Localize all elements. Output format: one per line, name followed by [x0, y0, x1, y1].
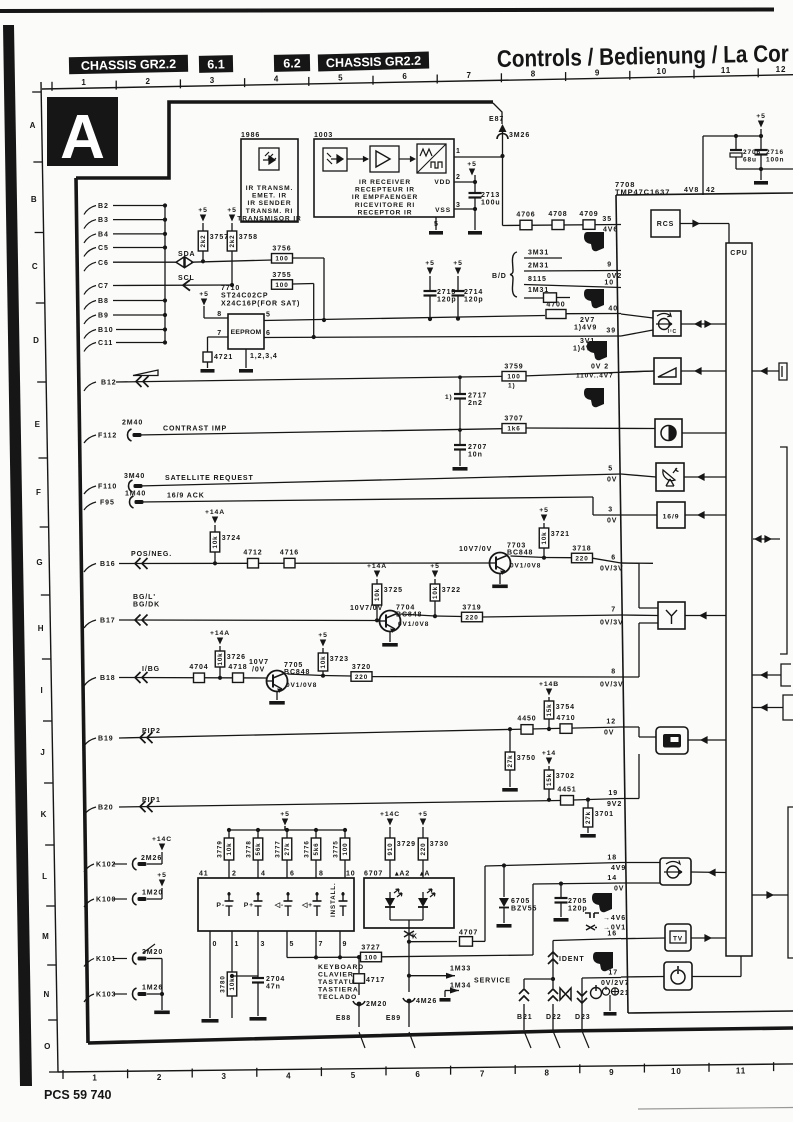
- svg-text:1: 1: [92, 1074, 97, 1083]
- svg-text:120p: 120p: [464, 297, 484, 304]
- svg-text:C5: C5: [98, 245, 109, 252]
- svg-text:+14B: +14B: [539, 681, 559, 688]
- svg-text:10: 10: [671, 1067, 682, 1076]
- svg-text:3722: 3722: [442, 587, 461, 594]
- svg-text:+14A: +14A: [205, 509, 225, 516]
- svg-text:4716: 4716: [280, 549, 299, 556]
- svg-text:3779: 3779: [217, 840, 224, 857]
- svg-text:16/9 ACK: 16/9 ACK: [167, 493, 205, 500]
- svg-text:→4V6: →4V6: [603, 915, 626, 922]
- svg-text:100u: 100u: [481, 200, 501, 207]
- svg-text:8: 8: [319, 871, 324, 878]
- svg-text:2M26: 2M26: [141, 855, 162, 862]
- svg-text:K: K: [412, 934, 418, 941]
- svg-text:+14A: +14A: [367, 563, 387, 570]
- svg-text:SATELLITE REQUEST: SATELLITE REQUEST: [165, 475, 254, 482]
- svg-text:B/D: B/D: [492, 273, 507, 280]
- svg-text:6.2: 6.2: [283, 56, 301, 70]
- svg-text:7: 7: [480, 1069, 485, 1078]
- svg-text:110V..4V7: 110V..4V7: [576, 373, 614, 380]
- svg-text:4: 4: [261, 871, 266, 878]
- svg-text:1: 1: [81, 78, 86, 87]
- svg-text:12: 12: [606, 719, 616, 726]
- svg-text:2705: 2705: [568, 898, 587, 905]
- svg-text:4710: 4710: [556, 715, 575, 722]
- svg-text:3726: 3726: [227, 654, 246, 661]
- svg-text:2: 2: [232, 871, 237, 878]
- svg-text:3702: 3702: [556, 773, 575, 780]
- svg-text:B9: B9: [98, 313, 109, 320]
- svg-text:3759: 3759: [504, 363, 523, 370]
- svg-text:IR SENDER: IR SENDER: [247, 200, 291, 207]
- svg-text:2k2: 2k2: [200, 234, 207, 247]
- svg-text:P+: P+: [244, 902, 254, 909]
- svg-text:0V/3V: 0V/3V: [600, 682, 624, 689]
- svg-text:3750: 3750: [517, 755, 536, 762]
- svg-text:7703: 7703: [507, 543, 526, 550]
- svg-text:4M26: 4M26: [416, 998, 437, 1005]
- svg-text:2: 2: [456, 174, 461, 181]
- svg-text:16/9: 16/9: [663, 514, 680, 521]
- svg-text:1M40: 1M40: [125, 491, 146, 498]
- svg-text:7: 7: [611, 607, 616, 614]
- svg-text:B4: B4: [98, 232, 109, 239]
- svg-text:3776: 3776: [304, 840, 311, 857]
- svg-text:INSTALL.: INSTALL.: [330, 882, 337, 917]
- svg-text:B20: B20: [98, 805, 114, 812]
- svg-text:+14C: +14C: [380, 811, 400, 818]
- svg-text:0V: 0V: [614, 886, 624, 893]
- svg-text:D: D: [33, 336, 40, 345]
- svg-text:39: 39: [606, 328, 616, 335]
- svg-text:10: 10: [656, 67, 667, 76]
- svg-text:10n: 10n: [468, 452, 483, 459]
- svg-text:16: 16: [607, 931, 617, 938]
- svg-text:+5: +5: [157, 872, 167, 879]
- svg-text:5k6: 5k6: [313, 842, 320, 855]
- svg-text:6: 6: [290, 871, 295, 878]
- svg-text:E89: E89: [386, 1015, 401, 1022]
- svg-text:+5: +5: [539, 507, 549, 514]
- svg-text:2717: 2717: [468, 393, 487, 400]
- svg-text:4: 4: [274, 75, 279, 84]
- svg-text:35: 35: [602, 216, 612, 223]
- svg-text:1: 1: [456, 148, 461, 155]
- svg-text:8: 8: [217, 311, 222, 318]
- svg-text:3M20: 3M20: [142, 949, 163, 956]
- svg-text:6: 6: [402, 72, 407, 81]
- svg-text:POS/NEG.: POS/NEG.: [131, 551, 172, 558]
- svg-text:4708: 4708: [548, 211, 567, 218]
- svg-text:10k: 10k: [212, 535, 219, 548]
- svg-text:K: K: [41, 810, 48, 819]
- svg-text:1)4V9: 1)4V9: [574, 325, 597, 332]
- svg-text:▴A2: ▴A2: [394, 871, 410, 878]
- svg-text:7: 7: [217, 330, 222, 337]
- svg-text:6707: 6707: [364, 871, 383, 878]
- svg-text:VDD: VDD: [434, 179, 451, 186]
- svg-text:8: 8: [611, 669, 616, 676]
- svg-text:2n2: 2n2: [468, 400, 483, 407]
- svg-text:41: 41: [199, 871, 209, 878]
- svg-text:C6: C6: [98, 260, 109, 267]
- svg-text:42: 42: [706, 187, 716, 194]
- svg-text:3757: 3757: [210, 234, 229, 241]
- svg-text:F: F: [36, 488, 42, 497]
- svg-text:3701: 3701: [595, 811, 614, 818]
- svg-text:47n: 47n: [266, 984, 281, 991]
- svg-text:4V6: 4V6: [603, 227, 618, 234]
- svg-text:4451: 4451: [557, 787, 576, 794]
- svg-text:5: 5: [290, 941, 295, 948]
- svg-text:F112: F112: [98, 433, 117, 440]
- svg-text:L: L: [42, 872, 48, 881]
- svg-text:3M31: 3M31: [528, 250, 549, 257]
- svg-text:C11: C11: [98, 340, 113, 347]
- svg-text:40: 40: [608, 306, 618, 313]
- svg-text:10k: 10k: [432, 586, 439, 599]
- svg-text:100: 100: [364, 954, 377, 961]
- svg-text:6.1: 6.1: [207, 57, 225, 71]
- svg-text:RCS: RCS: [657, 221, 674, 228]
- svg-text:+5: +5: [430, 563, 440, 570]
- svg-text:3718: 3718: [572, 545, 591, 552]
- svg-text:3: 3: [210, 76, 215, 85]
- svg-text:CLAVIER: CLAVIER: [318, 972, 354, 979]
- svg-text:2: 2: [157, 1073, 162, 1082]
- svg-text:100: 100: [342, 842, 349, 855]
- svg-text:7: 7: [319, 941, 324, 948]
- svg-text:7704: 7704: [396, 605, 415, 612]
- svg-text:2V7: 2V7: [580, 317, 595, 324]
- svg-text:3727: 3727: [361, 944, 380, 951]
- svg-text:K101: K101: [96, 956, 116, 963]
- svg-text:B21: B21: [517, 1014, 533, 1021]
- svg-text:B17: B17: [100, 618, 116, 625]
- svg-text:3721: 3721: [551, 531, 570, 538]
- svg-text:3M40: 3M40: [124, 473, 145, 480]
- svg-text:E88: E88: [336, 1015, 351, 1022]
- svg-text:8: 8: [545, 1069, 550, 1078]
- svg-text:4704: 4704: [189, 664, 208, 671]
- svg-text:7710: 7710: [221, 285, 240, 292]
- svg-text:EEPROM: EEPROM: [231, 329, 262, 336]
- svg-text:120p: 120p: [437, 297, 457, 304]
- svg-text:4: 4: [286, 1071, 291, 1080]
- svg-text:10k: 10k: [374, 588, 381, 601]
- svg-text:2M20: 2M20: [366, 1001, 387, 1008]
- svg-text:4V9: 4V9: [611, 865, 626, 872]
- svg-text:BZV55: BZV55: [511, 906, 537, 913]
- svg-text:4450: 4450: [517, 716, 536, 723]
- svg-text:1986: 1986: [241, 132, 260, 139]
- svg-text:SCL: SCL: [178, 275, 195, 282]
- svg-text:+14A: +14A: [210, 630, 230, 637]
- svg-text:0V1/0V8: 0V1/0V8: [510, 563, 541, 570]
- svg-text:/0V: /0V: [252, 667, 265, 674]
- svg-text:56k: 56k: [255, 842, 262, 855]
- svg-text:E87: E87: [489, 116, 504, 123]
- svg-text:910: 910: [387, 842, 394, 855]
- svg-text:N: N: [44, 990, 51, 999]
- svg-text:E: E: [35, 420, 41, 429]
- svg-text:10k: 10k: [541, 531, 548, 544]
- svg-text:19: 19: [608, 790, 618, 797]
- svg-text:Controls / Bedienung / La Cor: Controls / Bedienung / La Cor: [497, 40, 789, 73]
- svg-text:10V7/0V: 10V7/0V: [459, 546, 492, 553]
- svg-text:0V/3V: 0V/3V: [600, 620, 624, 627]
- svg-text:BG/DK: BG/DK: [133, 602, 160, 609]
- svg-text:8: 8: [531, 70, 536, 79]
- svg-text:3720: 3720: [352, 664, 371, 671]
- svg-text:+5: +5: [467, 161, 477, 168]
- svg-text:CONTRAST IMP: CONTRAST IMP: [163, 426, 227, 433]
- svg-text:B: B: [31, 195, 38, 204]
- svg-text:1M33: 1M33: [450, 966, 471, 973]
- svg-text:3725: 3725: [384, 587, 403, 594]
- svg-text:220: 220: [355, 674, 368, 681]
- svg-text:+14C: +14C: [152, 836, 172, 843]
- svg-text:2: 2: [146, 77, 151, 86]
- svg-text:K103: K103: [96, 992, 116, 999]
- svg-text:4721: 4721: [214, 354, 233, 361]
- svg-text:CHASSIS GR2.2: CHASSIS GR2.2: [326, 54, 422, 70]
- svg-text:9: 9: [607, 262, 612, 269]
- svg-text:5: 5: [266, 312, 271, 319]
- svg-text:3778: 3778: [246, 840, 253, 857]
- svg-text:IDENT: IDENT: [559, 956, 585, 963]
- svg-text:2716: 2716: [766, 149, 784, 156]
- svg-text:1): 1): [508, 383, 516, 390]
- svg-text:D23: D23: [575, 1014, 591, 1021]
- svg-text:3756: 3756: [272, 246, 291, 253]
- svg-text:B2: B2: [98, 203, 109, 210]
- svg-text:3724: 3724: [222, 535, 241, 542]
- svg-text:B10: B10: [98, 327, 114, 334]
- svg-text:CHASSIS GR2.2: CHASSIS GR2.2: [81, 57, 176, 73]
- svg-text:0V: 0V: [604, 730, 614, 737]
- svg-text:10V7/0V: 10V7/0V: [350, 605, 383, 612]
- svg-text:3755: 3755: [272, 272, 291, 279]
- svg-text:5: 5: [338, 73, 343, 82]
- svg-text:100: 100: [275, 256, 288, 263]
- svg-text:2714: 2714: [464, 289, 483, 296]
- svg-text:10k: 10k: [229, 977, 236, 990]
- svg-text:9: 9: [595, 68, 600, 77]
- svg-text:TV: TV: [673, 936, 683, 943]
- svg-text:+5: +5: [453, 260, 463, 267]
- svg-text:◁-: ◁-: [274, 902, 284, 909]
- svg-text:2713: 2713: [481, 192, 500, 199]
- svg-text:B3: B3: [98, 217, 109, 224]
- svg-text:RECEPTOR IR: RECEPTOR IR: [358, 209, 413, 216]
- svg-text:100: 100: [507, 374, 520, 381]
- svg-text:2M40: 2M40: [122, 420, 143, 427]
- svg-text:21: 21: [620, 990, 630, 997]
- svg-text:SERVICE: SERVICE: [474, 978, 511, 985]
- svg-text:220: 220: [420, 842, 427, 855]
- svg-text:IR RECEIVER: IR RECEIVER: [359, 179, 411, 186]
- svg-text:27k: 27k: [585, 811, 592, 824]
- svg-text:0V1/0V8: 0V1/0V8: [286, 682, 317, 689]
- svg-text:0: 0: [213, 941, 218, 948]
- svg-text:4717: 4717: [366, 977, 385, 984]
- svg-text:18: 18: [607, 855, 617, 862]
- svg-text:3775: 3775: [333, 840, 340, 857]
- svg-text:3719: 3719: [462, 604, 481, 611]
- svg-text:4706: 4706: [516, 211, 535, 218]
- svg-text:1003: 1003: [314, 132, 333, 139]
- svg-text:9: 9: [609, 1068, 614, 1077]
- svg-text:J: J: [40, 748, 45, 757]
- svg-text:◁+: ◁+: [301, 902, 313, 909]
- svg-text:2707: 2707: [468, 444, 487, 451]
- svg-text:I²C: I²C: [668, 329, 677, 335]
- svg-text:PCS 59 740: PCS 59 740: [44, 1088, 111, 1102]
- svg-text:TECLADO: TECLADO: [318, 994, 357, 1001]
- svg-text:8115: 8115: [528, 276, 547, 283]
- svg-text:1,2,3,4: 1,2,3,4: [250, 353, 278, 360]
- svg-text:4718: 4718: [228, 664, 247, 671]
- svg-text:5: 5: [351, 1071, 356, 1080]
- svg-text:I/BG: I/BG: [142, 666, 160, 673]
- svg-text:100n: 100n: [766, 157, 784, 164]
- svg-text:10k: 10k: [226, 842, 233, 855]
- svg-text:B12: B12: [101, 380, 117, 387]
- svg-text:K102: K102: [96, 862, 116, 869]
- svg-text:B8: B8: [98, 298, 109, 305]
- svg-text:27k: 27k: [507, 754, 514, 767]
- svg-text:27k: 27k: [284, 842, 291, 855]
- svg-text:220: 220: [465, 614, 478, 621]
- svg-text:TASTIERA: TASTIERA: [318, 987, 359, 994]
- svg-text:3754: 3754: [556, 704, 575, 711]
- svg-text:6: 6: [415, 1070, 420, 1079]
- svg-text:220: 220: [575, 555, 588, 562]
- svg-text:4707: 4707: [459, 930, 478, 937]
- svg-text:H: H: [38, 624, 45, 633]
- svg-text:0V/3V: 0V/3V: [600, 566, 624, 573]
- svg-text:4709: 4709: [579, 211, 598, 218]
- svg-text:+5: +5: [280, 811, 290, 818]
- svg-text:0V/2V7: 0V/2V7: [601, 980, 629, 987]
- svg-text:RICEVITORE RI: RICEVITORE RI: [355, 202, 415, 209]
- svg-text:+14: +14: [542, 750, 556, 757]
- svg-text:6: 6: [266, 330, 271, 337]
- svg-text:3M26: 3M26: [509, 132, 530, 139]
- svg-text:VSS: VSS: [435, 207, 451, 214]
- svg-text:10V7: 10V7: [249, 659, 269, 666]
- svg-text:B18: B18: [100, 675, 116, 682]
- svg-text:10: 10: [346, 871, 356, 878]
- svg-text:17: 17: [608, 970, 618, 977]
- svg-text:EMET. IR: EMET. IR: [252, 193, 287, 200]
- svg-text:4V8: 4V8: [684, 187, 699, 194]
- svg-text:BG/L': BG/L': [133, 594, 156, 601]
- svg-text:14: 14: [607, 875, 617, 882]
- svg-text:O: O: [44, 1042, 51, 1051]
- svg-text:IR TRANSM.: IR TRANSM.: [246, 185, 293, 192]
- svg-text:▴A: ▴A: [419, 871, 430, 878]
- svg-text:1M20: 1M20: [142, 890, 163, 897]
- svg-text:3707: 3707: [504, 416, 523, 423]
- svg-text:X24C16P(FOR SAT): X24C16P(FOR SAT): [221, 300, 300, 307]
- svg-text:1: 1: [235, 941, 240, 948]
- svg-text:P-: P-: [216, 902, 225, 909]
- svg-text:+5: +5: [227, 207, 237, 214]
- svg-text:11: 11: [721, 66, 731, 75]
- svg-text:2k2: 2k2: [229, 234, 236, 247]
- svg-text:3: 3: [608, 507, 613, 514]
- svg-text:F95: F95: [100, 500, 115, 507]
- svg-text:10k: 10k: [320, 655, 327, 668]
- svg-text:+5: +5: [756, 113, 766, 120]
- svg-text:3: 3: [261, 941, 266, 948]
- svg-text:I: I: [40, 686, 43, 695]
- svg-text:3723: 3723: [330, 656, 349, 663]
- svg-text:2M31: 2M31: [528, 263, 549, 270]
- svg-text:11: 11: [736, 1066, 746, 1075]
- svg-text:0V: 0V: [607, 518, 617, 525]
- svg-text:D22: D22: [546, 1014, 562, 1021]
- svg-text:B19: B19: [98, 736, 114, 743]
- svg-text:A: A: [60, 103, 105, 172]
- svg-text:C: C: [32, 262, 39, 271]
- svg-text:3780: 3780: [220, 975, 227, 992]
- svg-text:+5: +5: [425, 260, 435, 267]
- svg-text:+5: +5: [418, 811, 428, 818]
- svg-text:3: 3: [456, 202, 461, 209]
- svg-text:4712: 4712: [243, 549, 262, 556]
- svg-text:6: 6: [611, 555, 616, 562]
- svg-text:RECEPTEUR IR: RECEPTEUR IR: [355, 187, 415, 194]
- svg-text:0V: 0V: [607, 477, 617, 484]
- svg-text:TRANSM. RI: TRANSM. RI: [246, 208, 293, 215]
- svg-text:3729: 3729: [397, 841, 416, 848]
- svg-text:120p: 120p: [568, 906, 588, 913]
- svg-text:ST24C02CP: ST24C02CP: [221, 293, 268, 300]
- svg-text:K100: K100: [96, 897, 116, 904]
- svg-text:2704: 2704: [266, 976, 285, 983]
- svg-text:9: 9: [343, 941, 348, 948]
- svg-text:10: 10: [604, 280, 614, 287]
- svg-text:1k6: 1k6: [507, 426, 520, 433]
- svg-text:+5: +5: [318, 632, 328, 639]
- svg-text:1): 1): [445, 394, 453, 401]
- svg-text:3777: 3777: [275, 840, 282, 857]
- svg-text:C7: C7: [98, 283, 109, 290]
- svg-text:15k: 15k: [546, 773, 553, 786]
- svg-text:15k: 15k: [546, 703, 553, 716]
- svg-text:100: 100: [275, 282, 288, 289]
- svg-text:B16: B16: [100, 561, 116, 568]
- svg-text:SDA: SDA: [178, 251, 195, 258]
- svg-text:0V1/0V8: 0V1/0V8: [398, 621, 429, 628]
- svg-text:1M26: 1M26: [142, 985, 163, 992]
- svg-text:KEYBOARD: KEYBOARD: [318, 964, 364, 971]
- svg-text:12: 12: [776, 65, 787, 74]
- svg-text:7: 7: [467, 71, 472, 80]
- svg-text:3730: 3730: [430, 841, 449, 848]
- svg-text:M: M: [42, 932, 50, 941]
- svg-text:+5: +5: [198, 207, 208, 214]
- svg-text:A: A: [30, 121, 37, 130]
- svg-text:3: 3: [222, 1072, 227, 1081]
- svg-text:CPU: CPU: [730, 250, 747, 257]
- svg-text:5: 5: [608, 466, 613, 473]
- svg-text:F110: F110: [98, 484, 117, 491]
- svg-text:10k: 10k: [217, 652, 224, 665]
